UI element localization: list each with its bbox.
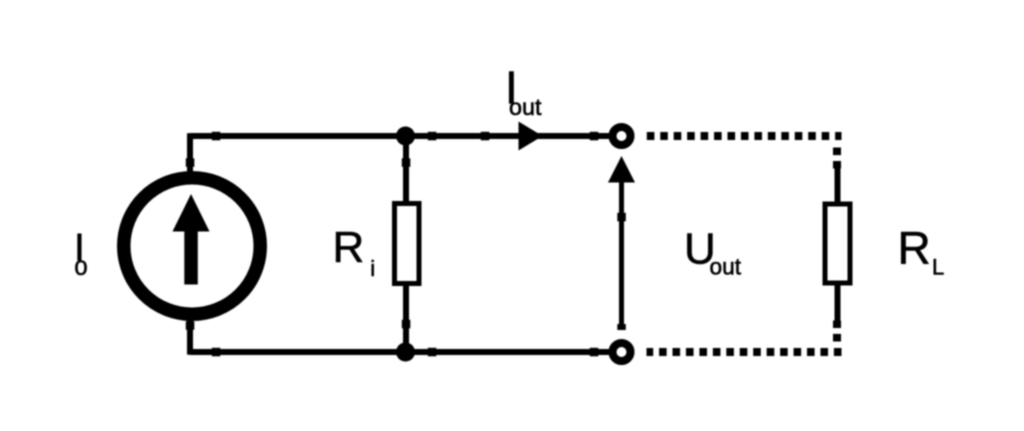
- wire R_L top stub: [835, 165, 841, 203]
- junction node top (R_i / top wire): [396, 127, 415, 146]
- output terminal bottom (open circle): [613, 343, 631, 361]
- wire joint nub U_out shaft: [617, 213, 626, 222]
- U_out arrow shaft (pointing up): [619, 180, 624, 330]
- label I0: [74, 226, 88, 279]
- svg-text:i: i: [370, 256, 375, 281]
- wire left vertical lower (current source to bottom wire): [187, 318, 193, 355]
- wire joint nub R_i top stub: [402, 158, 411, 167]
- junction node bottom (R_i / bottom wire): [396, 343, 415, 362]
- wire bottom horizontal from source to output terminal: [190, 349, 609, 355]
- label U_out: [684, 225, 742, 280]
- label I_out: [505, 62, 542, 120]
- current source arrow (pointing up): [173, 194, 210, 285]
- dashed wire right vertical upper: [833, 142, 841, 169]
- wire left vertical upper (top wire to current source): [187, 133, 193, 175]
- U_out arrow shaft end cap: [617, 324, 626, 330]
- svg-text:0: 0: [75, 257, 88, 280]
- wire joint nub top wire D: [590, 132, 599, 141]
- wire joint nub top wire C: [481, 132, 490, 141]
- arrowhead I_out on top wire (pointing right): [519, 122, 543, 151]
- wire joint nub top wire A: [212, 132, 221, 141]
- wire top horizontal from source to output terminal: [190, 133, 609, 139]
- dashed wire top (terminal to R_L branch): [647, 132, 842, 140]
- wire joint nub left vertical lower: [186, 321, 195, 330]
- U_out arrowhead: [608, 156, 635, 183]
- wire joint nub R_i bottom stub: [402, 320, 411, 329]
- svg-text:R: R: [898, 222, 931, 274]
- wire joint nub bottom wire B: [428, 348, 437, 357]
- output terminal top (open circle): [613, 127, 631, 145]
- wire R_i top stub: [403, 136, 409, 203]
- wire joint nub bottom wire A: [212, 348, 221, 357]
- dashed wire bottom (R_L branch to terminal): [647, 348, 842, 356]
- current source I0 circle: [124, 178, 261, 315]
- wire R_L bottom stub: [835, 285, 841, 323]
- svg-text:R: R: [333, 223, 365, 272]
- wire R_i bottom stub: [403, 285, 409, 352]
- resistor R_L body: [825, 204, 850, 283]
- wire joint nub bottom wire C: [590, 348, 599, 357]
- wire joint nub top wire B: [428, 132, 437, 141]
- svg-text:L: L: [932, 255, 944, 280]
- dashed wire right vertical lower: [833, 320, 841, 347]
- label R_i: [333, 223, 376, 281]
- svg-text:out: out: [509, 94, 542, 120]
- label R_L: [898, 222, 945, 280]
- wire joint nub left vertical: [186, 158, 195, 167]
- resistor R_i body: [395, 204, 420, 284]
- svg-text:out: out: [710, 254, 742, 280]
